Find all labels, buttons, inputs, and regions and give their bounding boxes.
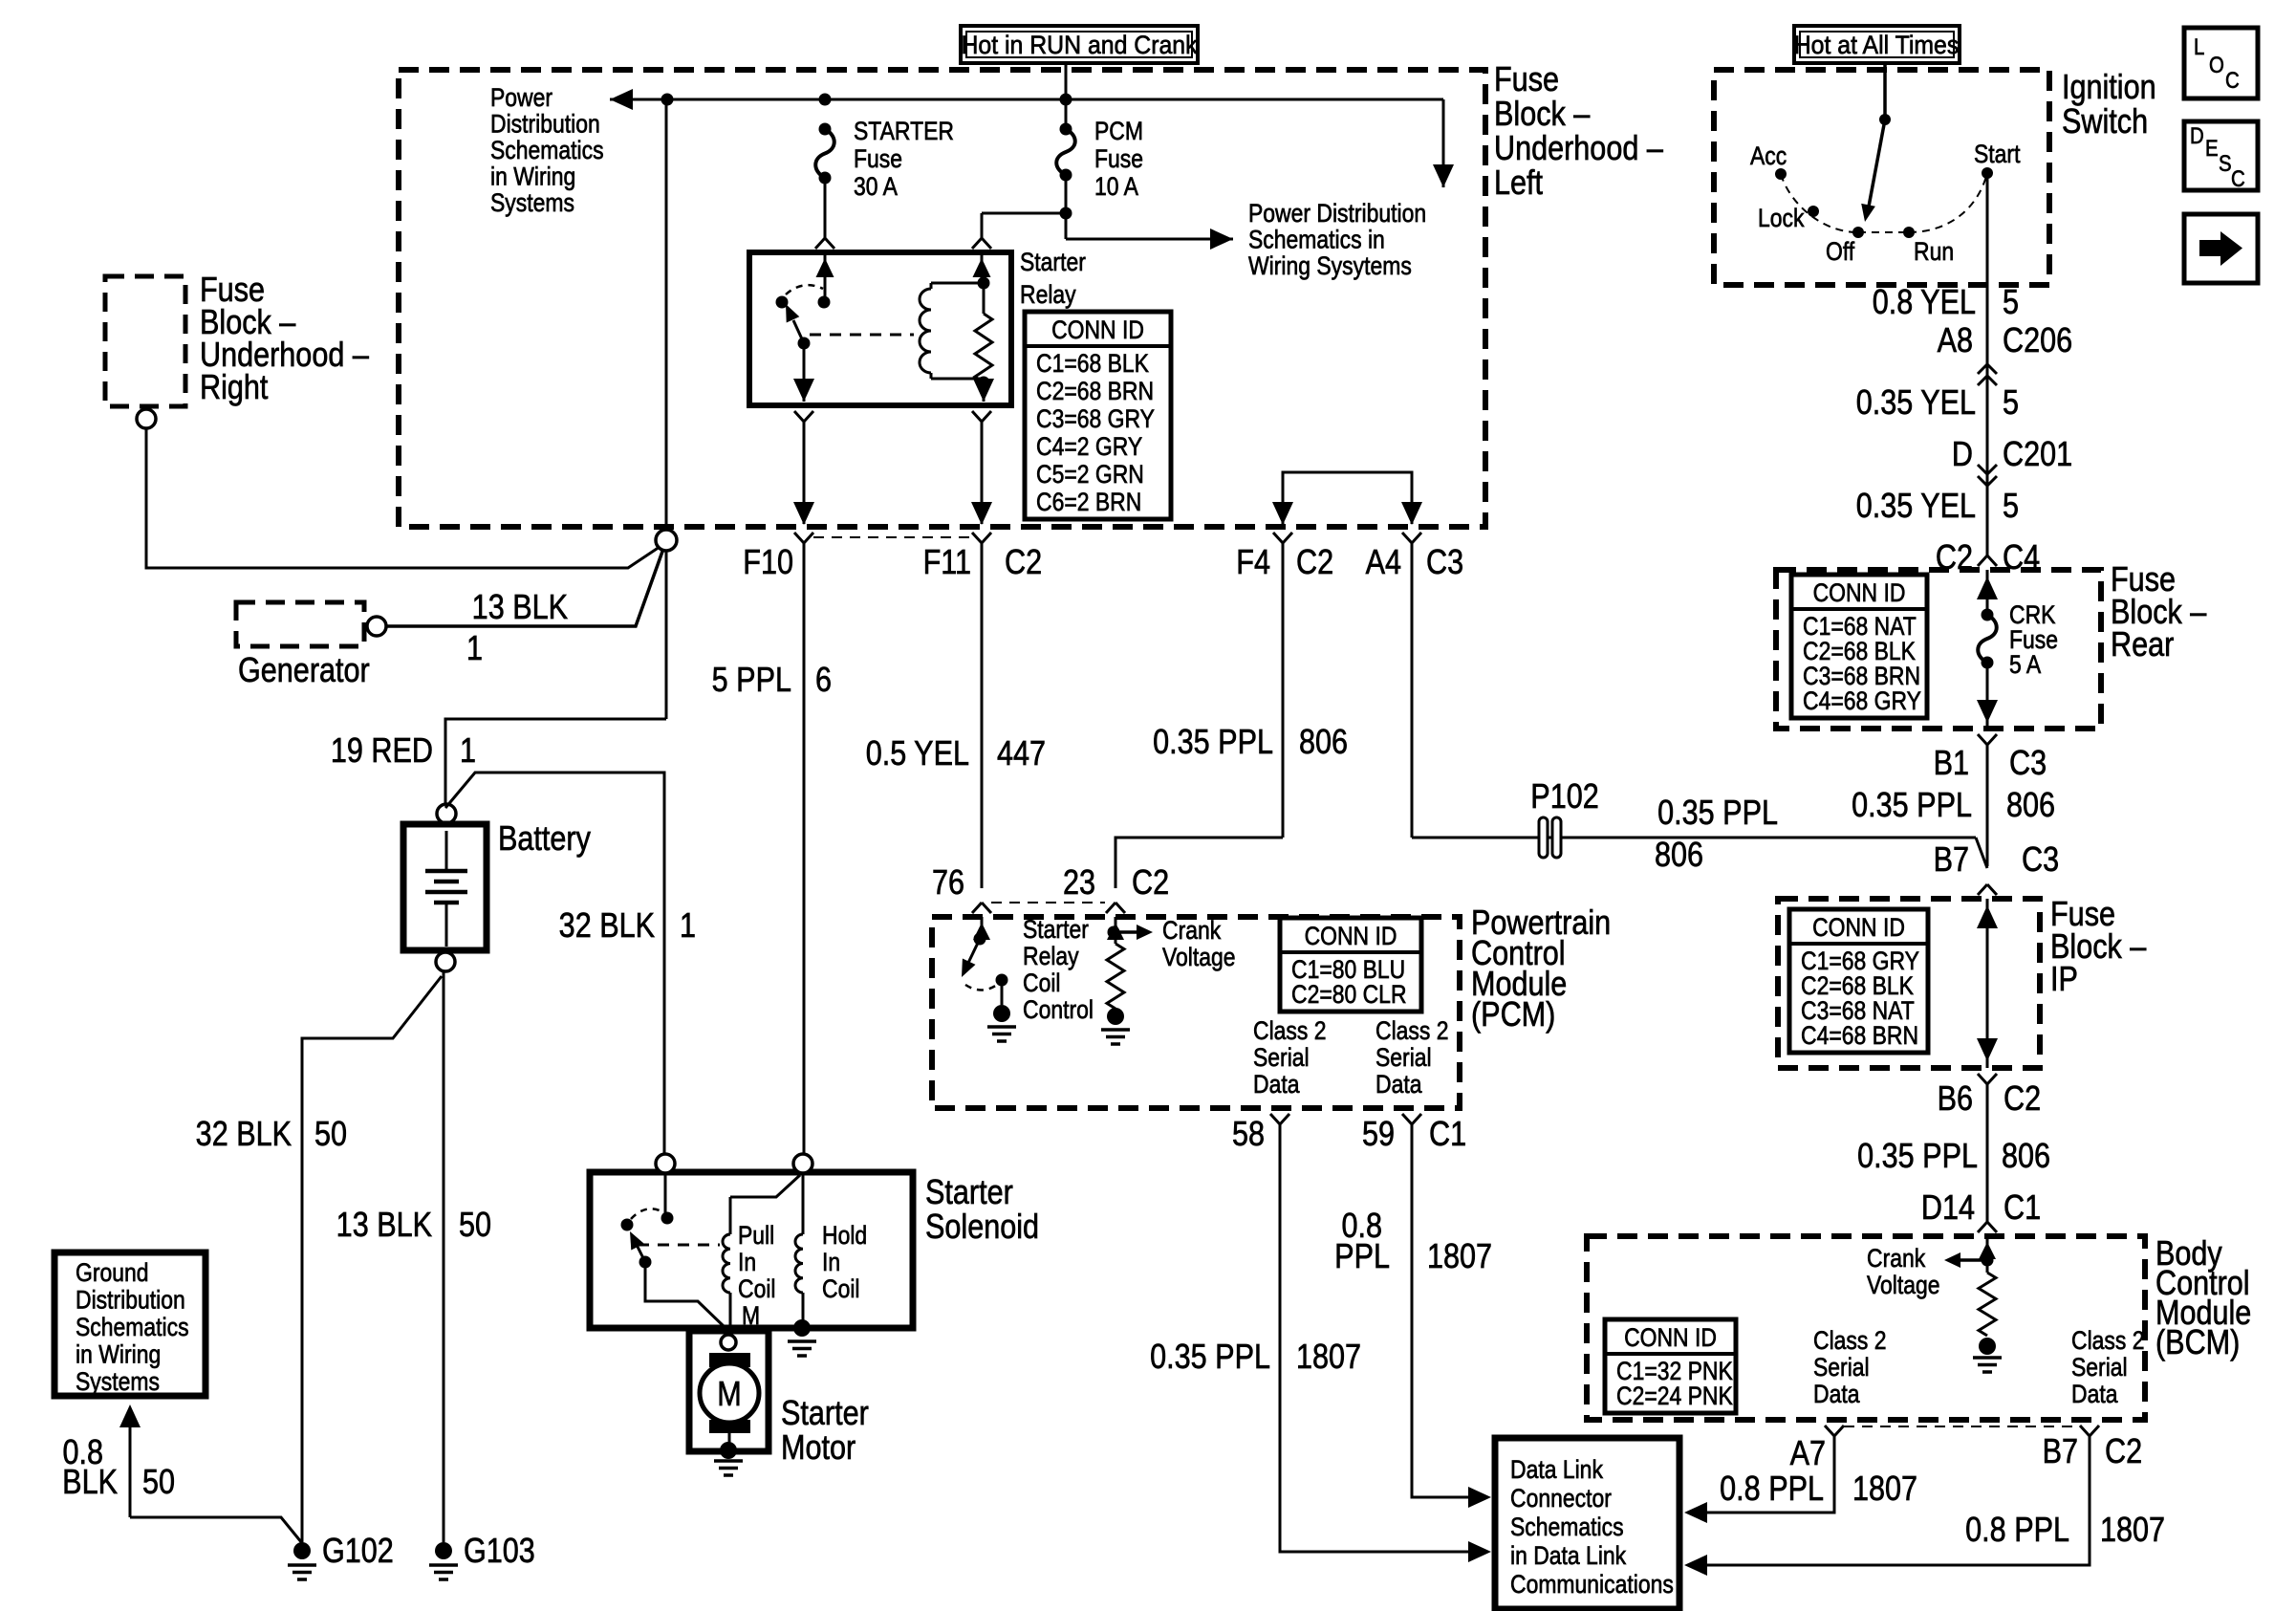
svg-text:Starter: Starter bbox=[925, 1174, 1013, 1212]
svg-text:C5=2 GRN: C5=2 GRN bbox=[1036, 460, 1144, 489]
svg-text:806: 806 bbox=[2006, 787, 2055, 825]
svg-text:Underhood –: Underhood – bbox=[1494, 130, 1663, 168]
svg-text:1: 1 bbox=[680, 907, 696, 946]
svg-text:Motor: Motor bbox=[781, 1429, 856, 1468]
svg-text:5 A: 5 A bbox=[2009, 650, 2041, 679]
svg-text:CONN ID: CONN ID bbox=[1305, 922, 1397, 950]
svg-text:Crank: Crank bbox=[1162, 916, 1222, 945]
svg-text:Fuse: Fuse bbox=[1494, 61, 1559, 99]
svg-text:STARTER: STARTER bbox=[854, 117, 954, 145]
svg-text:C201: C201 bbox=[2003, 436, 2072, 474]
svg-text:C1=68 BLK: C1=68 BLK bbox=[1036, 349, 1149, 378]
svg-text:Class 2: Class 2 bbox=[1253, 1016, 1327, 1045]
svg-text:C1: C1 bbox=[1429, 1116, 1466, 1154]
svg-text:0.8 PPL: 0.8 PPL bbox=[1965, 1512, 2069, 1550]
svg-text:Data: Data bbox=[1253, 1070, 1300, 1099]
svg-text:C206: C206 bbox=[2003, 322, 2072, 360]
svg-text:0.8 PPL: 0.8 PPL bbox=[1720, 1470, 1824, 1509]
svg-text:A7: A7 bbox=[1790, 1435, 1826, 1473]
svg-text:F10: F10 bbox=[743, 544, 793, 582]
svg-text:C2: C2 bbox=[1132, 864, 1169, 903]
svg-text:Power: Power bbox=[490, 83, 552, 112]
svg-text:in Data Link: in Data Link bbox=[1510, 1541, 1627, 1570]
svg-text:Left: Left bbox=[1494, 164, 1544, 203]
svg-text:CONN ID: CONN ID bbox=[1812, 913, 1905, 942]
svg-text:1807: 1807 bbox=[2100, 1512, 2165, 1550]
svg-text:0.5 YEL: 0.5 YEL bbox=[866, 735, 969, 773]
svg-text:BLK: BLK bbox=[62, 1464, 118, 1502]
svg-text:Relay: Relay bbox=[1023, 942, 1079, 970]
svg-text:806: 806 bbox=[2002, 1138, 2050, 1176]
svg-text:32 BLK: 32 BLK bbox=[196, 1116, 292, 1154]
svg-text:1: 1 bbox=[466, 630, 483, 668]
svg-text:C2=80 CLR: C2=80 CLR bbox=[1291, 980, 1407, 1009]
svg-text:Wiring Sysytems: Wiring Sysytems bbox=[1248, 251, 1412, 280]
svg-text:Voltage: Voltage bbox=[1162, 943, 1236, 971]
svg-text:Data: Data bbox=[2071, 1380, 2118, 1408]
svg-text:(BCM): (BCM) bbox=[2155, 1324, 2240, 1362]
svg-text:Ground: Ground bbox=[76, 1258, 149, 1287]
svg-text:1: 1 bbox=[460, 732, 476, 771]
svg-text:Serial: Serial bbox=[2071, 1353, 2128, 1382]
svg-text:Schematics: Schematics bbox=[490, 136, 604, 164]
svg-text:0.35 PPL: 0.35 PPL bbox=[1852, 787, 1972, 825]
svg-text:59: 59 bbox=[1362, 1116, 1395, 1154]
svg-text:C4=68 GRY: C4=68 GRY bbox=[1803, 686, 1921, 715]
svg-text:D: D bbox=[1952, 436, 1973, 474]
svg-text:C2: C2 bbox=[2105, 1433, 2142, 1471]
svg-text:C2: C2 bbox=[2004, 1080, 2041, 1119]
svg-text:Fuse: Fuse bbox=[1094, 144, 1143, 173]
svg-text:Class 2: Class 2 bbox=[2071, 1326, 2145, 1355]
svg-text:1807: 1807 bbox=[1852, 1470, 1917, 1509]
svg-text:C2=68 BRN: C2=68 BRN bbox=[1036, 377, 1154, 405]
svg-text:19 RED: 19 RED bbox=[331, 732, 433, 771]
svg-text:C2: C2 bbox=[1296, 544, 1333, 582]
svg-text:50: 50 bbox=[142, 1464, 175, 1502]
svg-text:0.35 PPL: 0.35 PPL bbox=[1857, 1138, 1978, 1176]
svg-text:5 PPL: 5 PPL bbox=[712, 662, 791, 700]
svg-text:Solenoid: Solenoid bbox=[925, 1208, 1039, 1247]
svg-text:Relay: Relay bbox=[1020, 280, 1076, 309]
svg-text:0.35 PPL: 0.35 PPL bbox=[1657, 795, 1778, 833]
svg-text:Block –: Block – bbox=[1494, 96, 1591, 134]
svg-text:Control: Control bbox=[1023, 995, 1094, 1024]
svg-text:Power Distribution: Power Distribution bbox=[1248, 199, 1426, 228]
svg-text:B7: B7 bbox=[2043, 1433, 2078, 1471]
svg-text:Off: Off bbox=[1826, 237, 1854, 266]
svg-text:58: 58 bbox=[1232, 1116, 1265, 1154]
svg-text:Battery: Battery bbox=[498, 820, 591, 859]
svg-text:P102: P102 bbox=[1530, 778, 1598, 816]
svg-text:A4: A4 bbox=[1366, 544, 1401, 582]
svg-text:Data: Data bbox=[1813, 1380, 1860, 1408]
svg-text:Switch: Switch bbox=[2062, 103, 2148, 142]
svg-text:Serial: Serial bbox=[1375, 1043, 1432, 1072]
svg-text:0.35 YEL: 0.35 YEL bbox=[1856, 384, 1976, 423]
svg-text:Schematics: Schematics bbox=[76, 1313, 189, 1341]
svg-text:in Wiring: in Wiring bbox=[76, 1340, 161, 1369]
svg-text:32 BLK: 32 BLK bbox=[559, 907, 655, 946]
svg-text:806: 806 bbox=[1655, 837, 1703, 875]
svg-text:50: 50 bbox=[314, 1116, 347, 1154]
svg-text:Crank: Crank bbox=[1867, 1244, 1926, 1273]
svg-text:CONN ID: CONN ID bbox=[1051, 316, 1144, 344]
svg-text:Coil: Coil bbox=[738, 1274, 776, 1303]
svg-text:Class 2: Class 2 bbox=[1375, 1016, 1449, 1045]
svg-text:Fuse: Fuse bbox=[854, 144, 902, 173]
svg-text:G103: G103 bbox=[464, 1533, 535, 1571]
svg-text:B7: B7 bbox=[1934, 841, 1969, 880]
svg-text:CONN ID: CONN ID bbox=[1813, 578, 1906, 607]
svg-text:1807: 1807 bbox=[1296, 1339, 1361, 1377]
svg-text:13 BLK: 13 BLK bbox=[472, 589, 568, 627]
svg-text:Starter: Starter bbox=[781, 1395, 869, 1433]
svg-text:PCM: PCM bbox=[1094, 117, 1143, 145]
svg-text:Generator: Generator bbox=[238, 652, 370, 690]
svg-text:C3=68 GRY: C3=68 GRY bbox=[1036, 404, 1155, 433]
svg-text:Starter: Starter bbox=[1023, 915, 1089, 944]
svg-text:In: In bbox=[822, 1248, 840, 1276]
svg-text:A8: A8 bbox=[1938, 322, 1973, 360]
svg-text:Data Link: Data Link bbox=[1510, 1455, 1603, 1484]
svg-text:Acc: Acc bbox=[1750, 142, 1787, 170]
svg-text:76: 76 bbox=[932, 864, 964, 903]
svg-text:Schematics: Schematics bbox=[1510, 1513, 1624, 1541]
svg-text:Class 2: Class 2 bbox=[1813, 1326, 1887, 1355]
svg-text:B6: B6 bbox=[1938, 1080, 1973, 1119]
svg-text:D: D bbox=[2190, 122, 2204, 148]
svg-text:Serial: Serial bbox=[1253, 1043, 1310, 1072]
svg-text:5: 5 bbox=[2003, 284, 2019, 322]
svg-text:806: 806 bbox=[1299, 724, 1348, 762]
svg-text:Hold: Hold bbox=[822, 1221, 867, 1250]
svg-text:Ignition: Ignition bbox=[2062, 69, 2156, 107]
svg-text:Systems: Systems bbox=[490, 188, 574, 217]
svg-text:F4: F4 bbox=[1236, 544, 1270, 582]
svg-text:Start: Start bbox=[1974, 140, 2020, 168]
svg-text:0.35 PPL: 0.35 PPL bbox=[1153, 724, 1273, 762]
svg-text:S: S bbox=[2219, 150, 2232, 176]
svg-text:Pull: Pull bbox=[738, 1221, 774, 1250]
svg-text:0.35 YEL: 0.35 YEL bbox=[1856, 488, 1976, 526]
svg-text:Serial: Serial bbox=[1813, 1353, 1870, 1382]
svg-text:Coil: Coil bbox=[1023, 969, 1061, 997]
svg-text:IP: IP bbox=[2050, 961, 2078, 999]
svg-text:5: 5 bbox=[2003, 488, 2019, 526]
svg-text:5: 5 bbox=[2003, 384, 2019, 423]
svg-text:Starter: Starter bbox=[1020, 248, 1086, 276]
svg-text:C1: C1 bbox=[2004, 1189, 2041, 1228]
svg-text:30 A: 30 A bbox=[854, 172, 898, 201]
svg-text:C2=24 PNK: C2=24 PNK bbox=[1616, 1382, 1733, 1410]
svg-text:10 A: 10 A bbox=[1094, 172, 1138, 201]
svg-text:Rear: Rear bbox=[2111, 626, 2174, 664]
svg-text:0.35 PPL: 0.35 PPL bbox=[1150, 1339, 1270, 1377]
svg-text:G102: G102 bbox=[322, 1533, 394, 1571]
svg-text:C4=68 BRN: C4=68 BRN bbox=[1801, 1021, 1918, 1050]
svg-text:C: C bbox=[2231, 165, 2245, 191]
svg-text:(PCM): (PCM) bbox=[1471, 996, 1555, 1034]
svg-text:Data: Data bbox=[1375, 1070, 1422, 1099]
svg-text:C: C bbox=[2225, 67, 2240, 93]
svg-text:Hot in RUN and Crank: Hot in RUN and Crank bbox=[961, 32, 1197, 59]
svg-text:C6=2 BRN: C6=2 BRN bbox=[1036, 488, 1141, 516]
svg-text:C4=2 GRY: C4=2 GRY bbox=[1036, 432, 1142, 461]
svg-text:Hot at All Times: Hot at All Times bbox=[1794, 32, 1960, 59]
svg-text:B1: B1 bbox=[1934, 745, 1969, 783]
svg-text:6: 6 bbox=[815, 662, 832, 700]
svg-text:Connector: Connector bbox=[1510, 1484, 1612, 1513]
svg-text:D14: D14 bbox=[1921, 1189, 1975, 1228]
svg-text:0.8 YEL: 0.8 YEL bbox=[1873, 284, 1976, 322]
svg-text:Right: Right bbox=[200, 369, 269, 407]
svg-text:E: E bbox=[2205, 135, 2219, 161]
svg-text:23: 23 bbox=[1063, 864, 1095, 903]
svg-text:CONN ID: CONN ID bbox=[1624, 1323, 1717, 1352]
svg-text:Schematics in: Schematics in bbox=[1248, 226, 1385, 254]
svg-text:1807: 1807 bbox=[1427, 1238, 1492, 1276]
svg-text:PPL: PPL bbox=[1334, 1238, 1390, 1276]
svg-text:In: In bbox=[738, 1248, 756, 1276]
svg-text:O: O bbox=[2209, 52, 2224, 77]
svg-text:Systems: Systems bbox=[76, 1367, 160, 1396]
svg-text:13 BLK: 13 BLK bbox=[336, 1207, 432, 1245]
svg-text:F11: F11 bbox=[923, 544, 971, 582]
svg-text:Run: Run bbox=[1914, 237, 1954, 266]
svg-text:Communications: Communications bbox=[1510, 1570, 1674, 1599]
svg-text:447: 447 bbox=[997, 735, 1046, 773]
svg-text:50: 50 bbox=[459, 1207, 491, 1245]
svg-text:M: M bbox=[742, 1301, 760, 1330]
svg-text:Distribution: Distribution bbox=[490, 110, 600, 139]
svg-text:C3: C3 bbox=[2022, 841, 2059, 880]
svg-text:M: M bbox=[717, 1376, 741, 1414]
svg-text:Distribution: Distribution bbox=[76, 1286, 185, 1315]
svg-text:C2: C2 bbox=[1005, 544, 1042, 582]
svg-text:C3: C3 bbox=[1426, 544, 1463, 582]
svg-text:Voltage: Voltage bbox=[1867, 1271, 1940, 1299]
svg-text:Coil: Coil bbox=[822, 1274, 860, 1303]
svg-text:in Wiring: in Wiring bbox=[490, 163, 575, 191]
svg-text:Lock: Lock bbox=[1758, 204, 1805, 232]
svg-text:C3: C3 bbox=[2009, 745, 2047, 783]
svg-text:L: L bbox=[2194, 33, 2204, 59]
